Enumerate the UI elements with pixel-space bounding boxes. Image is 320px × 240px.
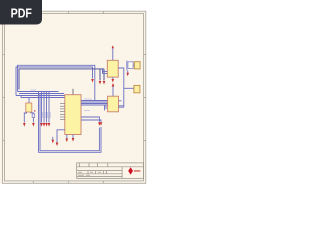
svg-text:PDF: PDF <box>11 6 32 21</box>
